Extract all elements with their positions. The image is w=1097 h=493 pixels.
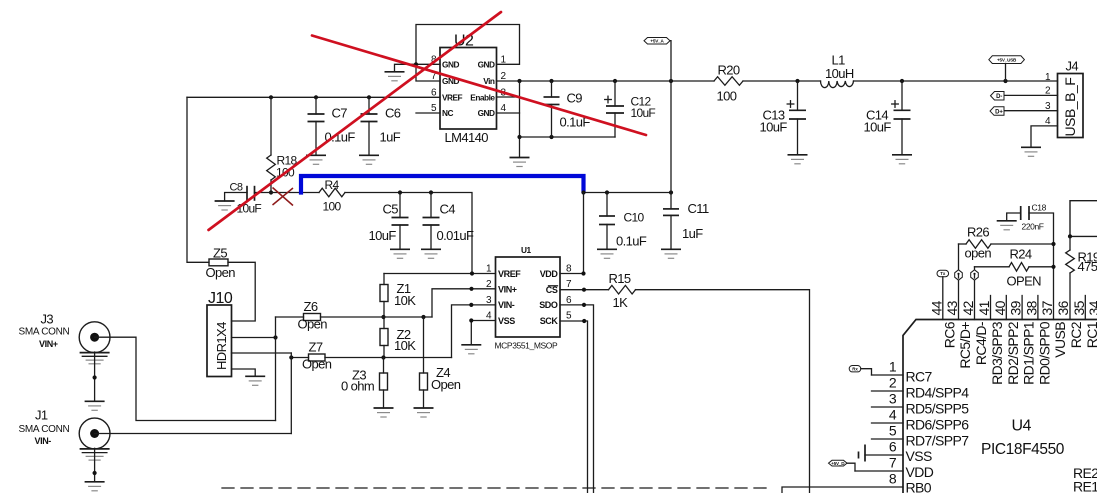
svg-text:C11: C11 bbox=[688, 201, 709, 216]
wire U1 VIN- row bbox=[452, 305, 496, 358]
svg-text:OPEN: OPEN bbox=[1007, 274, 1042, 289]
svg-text:HDR1X4: HDR1X4 bbox=[214, 322, 229, 370]
svg-text:44: 44 bbox=[928, 300, 944, 315]
C13 refdes bbox=[763, 108, 785, 123]
svg-text:1uF: 1uF bbox=[682, 226, 703, 241]
svg-text:+5V_D: +5V_D bbox=[831, 461, 845, 466]
tag Tx pin44 bbox=[937, 270, 949, 276]
svg-text:10uF: 10uF bbox=[369, 228, 397, 243]
wire U1 SDO pin6 bbox=[560, 305, 594, 493]
junction bbox=[469, 318, 473, 322]
Z4 refdes bbox=[436, 365, 450, 380]
svg-text:Rx: Rx bbox=[852, 366, 858, 371]
ground bbox=[85, 401, 105, 410]
U4 left pin numbers bbox=[889, 359, 897, 487]
wire J1 shield down bbox=[94, 448, 96, 481]
Z2 refdes bbox=[397, 327, 411, 342]
svg-text:PIC18F4550: PIC18F4550 bbox=[981, 441, 1065, 458]
J10 rotated name bbox=[214, 322, 229, 370]
junction bbox=[582, 288, 586, 292]
svg-text:42: 42 bbox=[960, 300, 976, 315]
svg-text:RD5/SPP5: RD5/SPP5 bbox=[906, 400, 970, 416]
wire U4 pin4 stub bbox=[872, 422, 904, 424]
U2 pin names right bbox=[470, 59, 495, 118]
junction bbox=[1003, 79, 1007, 83]
svg-text:open: open bbox=[965, 246, 992, 261]
svg-text:VIN+: VIN+ bbox=[498, 284, 517, 294]
junction bbox=[289, 355, 293, 359]
svg-text:Open: Open bbox=[206, 265, 236, 280]
red X mark bbox=[273, 188, 294, 206]
wire tag to pin44 bbox=[942, 277, 944, 320]
R4 value bbox=[323, 200, 342, 214]
svg-text:RC7: RC7 bbox=[906, 368, 933, 384]
U4 left pin names bbox=[906, 368, 970, 493]
wire pin stub bbox=[1037, 296, 1039, 320]
resistor R4 bbox=[319, 188, 345, 197]
C4 refdes bbox=[440, 202, 456, 217]
svg-text:41: 41 bbox=[976, 300, 992, 315]
capacitor C11 bbox=[663, 193, 679, 250]
C8 refdes bbox=[230, 182, 243, 194]
red cross-out line A bbox=[209, 12, 502, 230]
ground bbox=[421, 249, 441, 258]
svg-text:Enable: Enable bbox=[470, 92, 495, 102]
ground bbox=[385, 72, 405, 81]
junction bbox=[421, 315, 425, 319]
wire flag to row bbox=[1005, 64, 1007, 82]
svg-text:SCK: SCK bbox=[540, 316, 559, 326]
svg-text:RC4/D-: RC4/D- bbox=[973, 321, 989, 365]
junction bbox=[1051, 265, 1055, 269]
svg-text:Z7: Z7 bbox=[309, 340, 323, 355]
svg-text:34: 34 bbox=[1086, 300, 1097, 315]
ground bbox=[414, 408, 434, 417]
VSS rail symbol bbox=[859, 445, 904, 462]
jumper Z6 bbox=[304, 314, 321, 321]
svg-text:6: 6 bbox=[889, 439, 897, 455]
svg-text:38: 38 bbox=[1023, 300, 1039, 315]
R4 refdes bbox=[325, 178, 340, 192]
wire J3 shield down bbox=[94, 352, 96, 401]
wire NC stub bbox=[416, 112, 440, 114]
junction bbox=[549, 135, 553, 139]
C7 refdes bbox=[332, 106, 348, 121]
jumper Z5 bbox=[209, 259, 228, 266]
junction bbox=[381, 355, 385, 359]
svg-text:C7: C7 bbox=[332, 106, 348, 121]
wire R15 to right then down bbox=[636, 290, 810, 493]
ground bbox=[892, 155, 912, 164]
svg-text:VSS: VSS bbox=[906, 448, 932, 464]
U2 pin numbers right bbox=[501, 54, 507, 114]
svg-text:43: 43 bbox=[944, 300, 960, 315]
svg-text:RD0/SPP0: RD0/SPP0 bbox=[1036, 321, 1052, 385]
C6 value bbox=[380, 130, 401, 145]
svg-text:100: 100 bbox=[717, 89, 737, 104]
Z2 value bbox=[394, 338, 416, 353]
svg-text:RD4/SPP4: RD4/SPP4 bbox=[906, 384, 970, 400]
junction bbox=[469, 287, 473, 291]
wire J4 pin2 bbox=[1004, 94, 1058, 96]
wire U1 VSS bbox=[471, 321, 495, 345]
wire U4 pin7 VDD bbox=[855, 470, 903, 472]
junction bbox=[269, 190, 273, 194]
junction bbox=[314, 95, 318, 99]
L1 refdes bbox=[832, 53, 846, 68]
tag D- bbox=[991, 92, 1005, 101]
svg-text:VREF: VREF bbox=[498, 269, 521, 279]
C14 refdes bbox=[866, 108, 888, 123]
capacitor C7 bbox=[308, 97, 325, 155]
junction bbox=[613, 79, 617, 83]
svg-text:VREF: VREF bbox=[442, 92, 463, 102]
C12 refdes bbox=[631, 95, 652, 109]
svg-text:39: 39 bbox=[1008, 300, 1024, 315]
junction bbox=[669, 190, 673, 194]
R18 refdes bbox=[277, 154, 298, 168]
wire R20 to L1 bbox=[743, 80, 821, 82]
svg-text:10uF: 10uF bbox=[237, 202, 262, 216]
C9 value bbox=[560, 115, 591, 130]
C10 refdes bbox=[624, 211, 645, 225]
svg-text:RD3/SPP3: RD3/SPP3 bbox=[989, 321, 1005, 385]
svg-text:RD2/SPP2: RD2/SPP2 bbox=[1005, 321, 1021, 385]
svg-text:RC5/D+: RC5/D+ bbox=[957, 322, 973, 369]
blue highlight wire bbox=[301, 176, 584, 193]
connector J10 box bbox=[207, 305, 232, 377]
power flag +5V_A bbox=[644, 38, 670, 45]
tag D+ bbox=[990, 107, 1004, 116]
U1 pin numbers bbox=[486, 264, 572, 322]
tag Rx pin1 RC7 bbox=[849, 366, 871, 376]
R26 value bbox=[965, 246, 992, 261]
svg-text:J10: J10 bbox=[208, 290, 233, 307]
R20 value bbox=[717, 89, 737, 104]
U2 pin names left bbox=[442, 59, 463, 118]
C18 refdes bbox=[1032, 203, 1047, 213]
C14 value bbox=[864, 120, 892, 135]
red cross-out line B bbox=[312, 36, 646, 136]
R26 refdes bbox=[967, 225, 989, 240]
wire pin8 GND to ground bbox=[395, 64, 441, 71]
resistor Z1 bbox=[380, 274, 388, 329]
op-amp U2 LM4140 box bbox=[440, 48, 497, 130]
wire J1 to Z7 row bbox=[95, 433, 292, 435]
wire U4 pin2 stub bbox=[872, 390, 904, 392]
C10 value bbox=[616, 234, 647, 249]
wire U4 pin3 stub bbox=[872, 406, 904, 408]
tag pin42 bbox=[971, 270, 979, 280]
wire R4 to VREF corner bbox=[345, 193, 472, 274]
svg-text:GND: GND bbox=[478, 108, 495, 118]
junction bbox=[581, 271, 585, 275]
junction bbox=[470, 271, 474, 275]
J3 net VIN+ bbox=[39, 339, 58, 349]
Z7 value bbox=[302, 357, 332, 372]
J4 refdes bbox=[1066, 59, 1079, 74]
wire U1 CS pin7 to R15 bbox=[560, 289, 609, 291]
svg-text:C8: C8 bbox=[230, 182, 243, 194]
svg-text:VIN-: VIN- bbox=[35, 436, 52, 446]
ground bbox=[461, 345, 481, 354]
J1 refdes bbox=[35, 408, 48, 423]
capacitor C5 bbox=[392, 193, 409, 250]
wire Enable stub bbox=[497, 96, 520, 98]
svg-text:475: 475 bbox=[1078, 259, 1097, 274]
Z7 refdes bbox=[309, 340, 323, 355]
svg-text:VDD: VDD bbox=[540, 269, 559, 279]
svg-text:0.01uF: 0.01uF bbox=[437, 228, 475, 243]
svg-text:RD1/SPP1: RD1/SPP1 bbox=[1021, 321, 1037, 385]
svg-text:SMA CONN: SMA CONN bbox=[19, 424, 70, 435]
R20 refdes bbox=[718, 63, 740, 78]
junction bbox=[582, 319, 586, 323]
J3 name bbox=[19, 327, 70, 338]
svg-text:Tx: Tx bbox=[940, 271, 946, 276]
wire J3 to J10 loop bbox=[95, 337, 276, 420]
junction bbox=[269, 95, 273, 99]
wire Z row B bbox=[291, 357, 451, 359]
wire flag to Vin row bbox=[670, 41, 671, 193]
ground bbox=[359, 155, 379, 164]
wire J10 pin3 bbox=[232, 352, 292, 354]
wire U4 pin8 RB0 bbox=[782, 487, 903, 493]
svg-text:8: 8 bbox=[889, 471, 897, 487]
svg-text:J4: J4 bbox=[1066, 59, 1079, 74]
ground bbox=[374, 408, 394, 417]
svg-text:10uF: 10uF bbox=[864, 120, 892, 135]
power flag +5V_USB bbox=[989, 56, 1025, 64]
wire R24 to tag bbox=[974, 267, 976, 270]
svg-text:D+: D+ bbox=[995, 109, 1003, 115]
svg-text:LM4140: LM4140 bbox=[445, 130, 489, 145]
L1 value bbox=[825, 66, 854, 81]
wire U1 VREF row bbox=[384, 273, 496, 275]
J4 pin numbers bbox=[1045, 72, 1051, 127]
wire rail to U1 VDD bbox=[583, 193, 585, 274]
svg-text:U1: U1 bbox=[521, 245, 531, 255]
wire Z row A bbox=[276, 316, 433, 318]
svg-text:RD7/SPP7: RD7/SPP7 bbox=[906, 432, 970, 448]
wire U1 SCK pin5 bbox=[560, 321, 588, 493]
junction bbox=[549, 79, 553, 83]
svg-text:C6: C6 bbox=[385, 106, 401, 121]
C4 value bbox=[437, 228, 475, 243]
junction bbox=[93, 375, 97, 379]
C9 refdes bbox=[567, 91, 583, 106]
svg-text:R20: R20 bbox=[718, 63, 740, 78]
junction bbox=[1068, 234, 1072, 238]
Z5 refdes bbox=[213, 246, 227, 261]
Z3 value bbox=[341, 379, 374, 394]
C11 value bbox=[682, 226, 703, 241]
svg-text:220nF: 220nF bbox=[1022, 222, 1044, 232]
resistor R24 bbox=[975, 263, 1054, 272]
svg-text:10uF: 10uF bbox=[631, 106, 656, 120]
svg-text:40: 40 bbox=[992, 300, 1008, 315]
svg-text:10uH: 10uH bbox=[825, 66, 854, 81]
wire pin stub bbox=[990, 296, 992, 320]
wire C8 left bbox=[225, 193, 247, 202]
ground bbox=[306, 155, 326, 164]
J3 shield comb bbox=[80, 353, 110, 364]
svg-text:R26: R26 bbox=[967, 225, 989, 240]
wire U4 pin1 bbox=[872, 374, 904, 376]
svg-text:U4: U4 bbox=[1012, 418, 1032, 435]
Z6 value bbox=[298, 317, 328, 332]
U2 value LM4140 bbox=[445, 130, 489, 145]
C12 value bbox=[631, 106, 656, 120]
svg-text:100: 100 bbox=[323, 200, 342, 214]
svg-text:10uF: 10uF bbox=[760, 120, 788, 135]
svg-text:3: 3 bbox=[889, 391, 897, 407]
U1 value bbox=[495, 341, 558, 351]
Z1 value bbox=[394, 293, 416, 308]
ground bbox=[85, 482, 105, 491]
capacitor C6 bbox=[361, 97, 378, 155]
svg-text:10K: 10K bbox=[394, 338, 416, 353]
J4 rotated name bbox=[1062, 78, 1078, 137]
capacitor C8 series plates bbox=[247, 186, 255, 201]
svg-text:1: 1 bbox=[889, 359, 897, 375]
junction bbox=[517, 79, 521, 83]
Z4 value bbox=[431, 377, 461, 392]
capacitor C10 bbox=[599, 193, 615, 250]
svg-text:37: 37 bbox=[1039, 300, 1055, 315]
junction bbox=[429, 190, 433, 194]
svg-text:+5V_USB: +5V_USB bbox=[997, 57, 1017, 62]
capacitor C12 polarized bbox=[605, 81, 624, 137]
ground bbox=[215, 201, 235, 210]
capacitor C4 bbox=[423, 193, 440, 250]
svg-text:Open: Open bbox=[431, 377, 461, 392]
C7 value bbox=[325, 130, 356, 145]
J10 refdes bbox=[208, 290, 233, 307]
Z5 value bbox=[206, 265, 236, 280]
junction bbox=[398, 190, 402, 194]
node VREF wire bbox=[187, 96, 440, 98]
wire C8 to R4 bbox=[255, 192, 320, 194]
ground bbox=[597, 249, 617, 258]
ground bbox=[788, 155, 808, 164]
svg-text:10K: 10K bbox=[394, 293, 416, 308]
wire J4 pin3 bbox=[1004, 110, 1058, 112]
svg-text:Open: Open bbox=[298, 317, 328, 332]
wire pin stub bbox=[1021, 296, 1023, 320]
resistor R19 bbox=[1066, 236, 1075, 319]
resistor R26 bbox=[959, 240, 1054, 249]
resistor R18 bbox=[267, 97, 276, 192]
wire pin stub bbox=[1084, 296, 1086, 320]
junction bbox=[469, 303, 473, 307]
ground bbox=[510, 158, 530, 167]
wire gnd rail under U2 bbox=[520, 136, 616, 138]
capacitor C9 bbox=[544, 81, 560, 137]
jumper Z4 bbox=[420, 317, 428, 408]
ground bbox=[997, 221, 1017, 230]
wire tag to pin43 bbox=[958, 280, 960, 319]
svg-text:Z6: Z6 bbox=[304, 299, 318, 314]
junction bbox=[381, 315, 385, 319]
svg-text:RC2: RC2 bbox=[1068, 321, 1084, 348]
op-amp U1 MCP3551 box bbox=[496, 257, 561, 337]
svg-text:4: 4 bbox=[889, 407, 897, 423]
wire pin stub bbox=[1005, 296, 1007, 320]
Z3 refdes bbox=[352, 368, 366, 383]
junction bbox=[900, 79, 904, 83]
R24 refdes bbox=[1010, 247, 1032, 262]
svg-text:R15: R15 bbox=[609, 271, 631, 286]
R18 value bbox=[276, 166, 295, 180]
svg-text:C18: C18 bbox=[1032, 203, 1047, 213]
C11 refdes bbox=[688, 201, 709, 216]
junction bbox=[367, 95, 371, 99]
svg-text:SDO: SDO bbox=[539, 300, 558, 310]
wire Vin row U2 to R20 bbox=[497, 80, 715, 82]
svg-text:2: 2 bbox=[889, 375, 897, 391]
svg-text:MCP3551_MSOP: MCP3551_MSOP bbox=[495, 341, 558, 351]
svg-text:GND: GND bbox=[478, 59, 495, 69]
C5 refdes bbox=[383, 202, 399, 217]
wire J4 pin4 to ground bbox=[1031, 126, 1058, 147]
J3 refdes bbox=[41, 312, 54, 327]
U4 right pin names clipped bbox=[1073, 465, 1097, 493]
Z6 refdes bbox=[304, 299, 318, 314]
U4 value bbox=[981, 441, 1065, 458]
wire J1 vertical bbox=[290, 353, 292, 434]
J1 name bbox=[19, 424, 70, 435]
U1 pin names left bbox=[498, 269, 521, 326]
svg-text:J3: J3 bbox=[41, 312, 54, 327]
svg-text:USB_B_F: USB_B_F bbox=[1062, 78, 1078, 137]
junction pin8/loop bbox=[414, 62, 418, 66]
wire J10 pin4 to ground bbox=[232, 369, 256, 376]
junction bbox=[795, 79, 799, 83]
svg-text:RC6: RC6 bbox=[941, 321, 957, 348]
ground bbox=[661, 249, 681, 258]
C8 value bbox=[237, 202, 262, 216]
svg-text:Open: Open bbox=[302, 357, 332, 372]
svg-text:GND: GND bbox=[442, 59, 459, 69]
wire VDD rail bbox=[584, 192, 672, 194]
svg-text:VUSB: VUSB bbox=[1052, 322, 1068, 358]
component box top right bbox=[1070, 201, 1097, 237]
svg-text:0 ohm: 0 ohm bbox=[341, 379, 374, 394]
R15 value bbox=[613, 295, 629, 310]
jumper Z7 bbox=[309, 354, 326, 361]
power flag +5V_D bbox=[829, 460, 856, 471]
svg-text:5: 5 bbox=[889, 423, 897, 439]
U4 top pin names bbox=[941, 321, 1097, 385]
svg-text:C10: C10 bbox=[624, 211, 645, 225]
J1 shield comb bbox=[80, 449, 110, 460]
U4 top pin numbers bbox=[928, 300, 1097, 315]
svg-text:Z5: Z5 bbox=[213, 246, 227, 261]
inductor L1 bbox=[821, 81, 854, 88]
svg-text:VDD: VDD bbox=[906, 464, 934, 480]
svg-text:35: 35 bbox=[1071, 300, 1087, 315]
wire Z5 to J10 pin1 bbox=[228, 262, 255, 321]
op-amp U2 outer ground loop wire bbox=[416, 25, 520, 82]
junction bbox=[582, 303, 586, 307]
svg-text:R24: R24 bbox=[1010, 247, 1032, 262]
junction bbox=[605, 190, 609, 194]
C18 capacitor bbox=[1007, 206, 1054, 320]
resistor Z3 bbox=[380, 358, 388, 409]
wire Z6 corner vertical bbox=[275, 317, 277, 421]
U2 refdes bbox=[454, 33, 474, 50]
